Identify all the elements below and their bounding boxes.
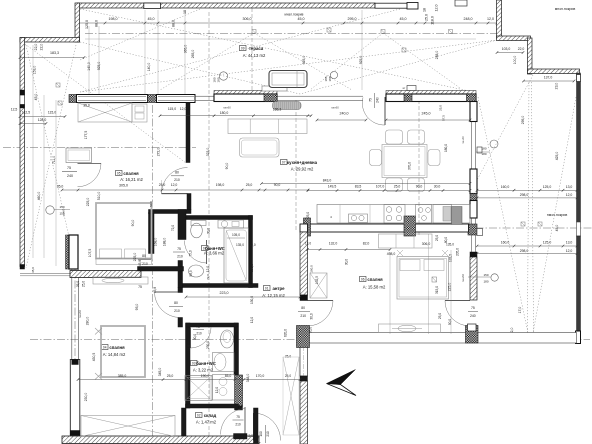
svg-text:180: 180	[483, 280, 488, 284]
window lines gap 1	[195, 95, 214, 97]
column right wall mid2	[470, 201, 477, 219]
bathtub 366	[224, 228, 249, 283]
svg-text:пан60: пан60	[331, 106, 339, 110]
svg-text:306,0: 306,0	[243, 17, 252, 21]
svg-text:385,0: 385,0	[118, 374, 127, 378]
svg-text:75: 75	[177, 247, 181, 251]
window right wall lower	[470, 218, 472, 224]
dining chair bot1	[386, 178, 403, 192]
svg-text:225,0: 225,0	[448, 283, 452, 292]
svg-text:75: 75	[369, 98, 373, 102]
wall below band hatch	[300, 343, 308, 346]
svg-text:160,0: 160,0	[501, 241, 510, 245]
coffee table living	[240, 138, 280, 157]
svg-text:75: 75	[138, 285, 142, 289]
svg-text:298,0: 298,0	[520, 193, 529, 197]
wall corridor hatch lower	[300, 381, 308, 444]
door bath366 leaf	[206, 240, 208, 264]
svg-text:365,0: 365,0	[184, 45, 188, 54]
svg-text:210: 210	[266, 431, 270, 437]
svg-text:230,0: 230,0	[84, 393, 88, 402]
dim line left v2	[43, 95, 45, 258]
dim chain right low2	[477, 253, 577, 255]
washer 322	[213, 375, 235, 401]
door bed15 arc	[308, 301, 334, 327]
roof diagonal terrace top 5	[80, 40, 497, 92]
svg-text:180: 180	[481, 152, 486, 156]
bath366 bottom wall	[182, 284, 259, 288]
svg-text:25,0: 25,0	[438, 313, 442, 319]
ext line v7	[496, 26, 498, 40]
axis line bedroom14	[151, 105, 153, 441]
roof diagonal terrace top 6	[80, 9, 200, 60]
toilet 322	[221, 330, 234, 348]
svg-text:35,0: 35,0	[309, 327, 313, 333]
hatch col kitchen bottom left	[304, 218, 311, 236]
svg-text:137,0: 137,0	[544, 76, 553, 80]
wall left cap	[20, 265, 25, 270]
axis line left terrace	[3, 147, 196, 149]
wc322 right wall	[234, 323, 239, 375]
cabinet bedroom16 wall	[66, 148, 92, 163]
svg-text:22,0: 22,0	[518, 47, 525, 51]
svg-text:132,5: 132,5	[449, 254, 453, 262]
axis dashed vertical x209	[208, 12, 210, 442]
svg-text:345,0: 345,0	[158, 368, 162, 377]
wall piece below sklad door	[234, 434, 248, 440]
wall left	[20, 38, 25, 267]
closet bedroom15	[379, 234, 433, 248]
svg-text:75: 75	[236, 415, 240, 419]
dim line b15	[308, 249, 391, 251]
wall right hatch	[470, 257, 477, 300]
terrace bench	[262, 86, 287, 91]
door bedroom16 left arc	[78, 163, 102, 187]
terrace band bottom	[309, 333, 577, 344]
svg-text:132,0: 132,0	[329, 242, 338, 246]
window left wall cap1	[20, 90, 25, 95]
svg-text:50,0: 50,0	[149, 201, 153, 207]
hatch band left-mid	[70, 271, 141, 278]
ext line v4	[157, 10, 159, 94]
svg-text:35,0: 35,0	[83, 104, 90, 108]
ext line v1	[88, 26, 90, 94]
label terasa	[240, 46, 247, 51]
ext line bed16 1	[161, 180, 163, 194]
svg-text:17,0: 17,0	[518, 307, 522, 314]
dim line left v3	[55, 100, 57, 266]
door bedroom16 left leaf	[78, 162, 102, 164]
label kitchen	[281, 160, 288, 165]
svg-text:125,0: 125,0	[85, 20, 89, 29]
bed bedroom15	[397, 257, 449, 300]
svg-text:25,0: 25,0	[285, 355, 291, 359]
column end top parapet	[407, 3, 418, 10]
svg-text:72,0: 72,0	[206, 274, 210, 280]
ext line b15 b	[428, 234, 430, 334]
svg-text:183,3: 183,3	[50, 51, 59, 55]
ext line v2	[98, 26, 100, 94]
svg-text:88,0: 88,0	[95, 20, 99, 27]
svg-text:430,5: 430,5	[92, 353, 96, 362]
svg-text:295,0: 295,0	[521, 116, 525, 125]
svg-text:265,0: 265,0	[191, 50, 195, 59]
svg-text:A: 3,22 m2: A: 3,22 m2	[193, 368, 214, 373]
axis line kitchen band	[300, 227, 592, 229]
svg-text:спалня: спалня	[123, 171, 139, 176]
svg-text:пан60: пан60	[223, 106, 231, 110]
shower 322	[185, 376, 212, 401]
svg-text:23,0: 23,0	[555, 83, 559, 90]
cabinet gray below band	[273, 102, 302, 110]
label antre	[264, 286, 271, 291]
svg-text:баня+WC: баня+WC	[196, 361, 216, 366]
window left wall cap2	[20, 105, 25, 109]
svg-text:180: 180	[328, 76, 332, 81]
wall right cap black	[470, 252, 477, 257]
window right wall lower2	[470, 235, 472, 252]
toilet 366	[191, 223, 203, 238]
svg-text:нмзл.покрив: нмзл.покрив	[547, 213, 568, 217]
svg-text:225,0: 225,0	[86, 198, 90, 207]
svg-text:25,0: 25,0	[439, 105, 443, 111]
sofa living	[228, 119, 307, 134]
svg-text:35,0: 35,0	[76, 281, 80, 287]
sink 322	[213, 353, 235, 372]
svg-text:A: 1,47 m2: A: 1,47 m2	[196, 420, 217, 425]
svg-text:306,0: 306,0	[422, 242, 431, 246]
label bath366	[202, 246, 209, 251]
column right wall mid	[470, 169, 477, 194]
door bed15 leaf	[308, 300, 334, 302]
wall band living top	[214, 94, 277, 102]
antre step wall	[138, 267, 184, 272]
svg-text:100,0: 100,0	[513, 56, 517, 65]
axis line bottom band	[30, 339, 590, 341]
dining chair top1	[386, 130, 403, 144]
svg-text:A: 15,58 m2: A: 15,58 m2	[363, 285, 386, 290]
svg-text:510,0: 510,0	[97, 192, 101, 201]
svg-text:160,0: 160,0	[310, 265, 314, 273]
label bedroom14	[102, 345, 109, 350]
roof diagonal terrace top 9	[310, 33, 383, 90]
corner mark b14 b	[95, 373, 102, 380]
roof diagonal terrace top 3	[300, 40, 497, 94]
svg-text:30,0: 30,0	[207, 228, 211, 234]
svg-text:30,0: 30,0	[193, 334, 197, 340]
svg-text:190,0: 190,0	[250, 264, 254, 272]
svg-text:295,0: 295,0	[348, 17, 357, 21]
svg-text:925,0: 925,0	[97, 62, 101, 71]
svg-text:72,0: 72,0	[187, 345, 191, 351]
terrace band hatch right	[466, 326, 479, 344]
wc322 top wall	[186, 323, 238, 327]
window left wall	[20, 95, 25, 105]
svg-text:пан60: пан60	[461, 274, 465, 283]
door right terrace leaf	[445, 300, 470, 302]
wall band kitchen top	[386, 94, 476, 102]
svg-text:248,0: 248,0	[435, 51, 439, 60]
svg-text:45,8: 45,8	[153, 287, 157, 293]
svg-text:45,0: 45,0	[148, 17, 155, 21]
svg-text:205,0: 205,0	[456, 248, 460, 256]
kt box right wall 2	[477, 147, 482, 153]
dim chain right low	[477, 245, 577, 247]
axis mark t1	[327, 28, 331, 32]
door bedroom16 leaf	[162, 193, 188, 195]
drain circle right2	[491, 274, 498, 281]
axis mark t4	[381, 30, 385, 34]
window band lower-left lower	[70, 360, 80, 436]
svg-text:80: 80	[301, 306, 305, 310]
corner mark b15 2	[442, 250, 448, 256]
svg-text:188,0: 188,0	[163, 238, 167, 247]
svg-text:125,0: 125,0	[543, 185, 552, 189]
svg-text:272,0: 272,0	[157, 148, 161, 157]
axis dashed vertical x296	[295, 100, 297, 232]
svg-text:225,0: 225,0	[133, 253, 137, 262]
roof diagonal right terrace 5	[477, 75, 533, 180]
terrace door leaf	[384, 97, 386, 125]
svg-text:210: 210	[177, 255, 183, 259]
wall top-right vertical 1	[497, 0, 502, 38]
closet corridor	[283, 357, 299, 435]
sink 366	[189, 265, 204, 277]
svg-text:35,0: 35,0	[57, 185, 64, 189]
svg-text:01: 01	[265, 287, 269, 291]
svg-text:210: 210	[300, 314, 306, 318]
svg-text:склад: склад	[204, 413, 217, 418]
svg-text:A: 29,92 m2: A: 29,92 m2	[291, 167, 314, 172]
svg-text:298,0: 298,0	[520, 249, 529, 253]
svg-text:06: 06	[361, 278, 365, 282]
svg-text:240,0: 240,0	[340, 112, 349, 116]
hatch strip living band	[214, 91, 277, 95]
roof diagonal right terrace 3	[528, 82, 530, 333]
door wc322 arc	[191, 328, 212, 349]
svg-text:115,0: 115,0	[48, 111, 56, 115]
svg-text:149,5: 149,5	[328, 185, 337, 189]
window band lower-left upper	[71, 269, 73, 360]
dim line bot	[186, 379, 300, 381]
svg-text:A: 3,66 m2: A: 3,66 m2	[204, 251, 225, 256]
column check right wall 2	[468, 224, 477, 235]
svg-text:25,0: 25,0	[306, 212, 310, 218]
roof diagonal terrace top 4	[80, 42, 300, 94]
svg-text:A: 14,84 m2: A: 14,84 m2	[103, 352, 126, 357]
wardrobe bedroom16	[78, 103, 132, 122]
wall band bedroom top	[77, 95, 148, 103]
wall right dark lower	[577, 236, 581, 335]
wall top-left leg	[75, 3, 80, 42]
box X bedroom15	[310, 273, 327, 298]
svg-text:210: 210	[235, 423, 241, 427]
wall bar left of bath366	[149, 213, 155, 254]
north arrow	[327, 370, 356, 385]
svg-text:128,0: 128,0	[38, 118, 47, 122]
svg-text:мнзл.покрив: мнзл.покрив	[285, 13, 304, 17]
wall corridor cap	[300, 376, 308, 381]
svg-text:210: 210	[142, 262, 148, 266]
column hatch lower-left	[66, 235, 70, 269]
svg-text:50,0: 50,0	[448, 319, 452, 325]
axis mark right 2	[538, 222, 542, 226]
hatch band bottom	[62, 436, 259, 444]
wall antre-bed15 cap	[300, 295, 308, 301]
svg-text:35,0: 35,0	[31, 267, 35, 273]
axis mark right 1	[521, 222, 525, 226]
svg-text:13,0: 13,0	[566, 185, 573, 189]
dim chain right mid	[477, 189, 577, 191]
wc322 block cap	[235, 406, 243, 410]
roof diagonal terrace top 10	[383, 33, 460, 88]
svg-text:140,0: 140,0	[87, 62, 91, 71]
door sklad2 leaf	[244, 407, 246, 436]
svg-text:170,0: 170,0	[256, 374, 265, 378]
sklad left wall	[182, 408, 187, 436]
corner mark top-right	[455, 0, 467, 6]
svg-text:925,0: 925,0	[359, 56, 363, 65]
axis dashed vertical x252	[251, 8, 253, 95]
dim chain top	[77, 22, 497, 24]
svg-text:75: 75	[67, 166, 71, 170]
axis mark t5	[449, 30, 453, 34]
window band lower-left cap1	[72, 360, 79, 365]
glazing bedroom band	[78, 96, 146, 98]
kt box above kitchen band	[407, 86, 416, 91]
wall bedroom14 right	[178, 288, 183, 293]
column mid band 2	[148, 95, 157, 103]
svg-text:115,0: 115,0	[168, 107, 176, 111]
corner mark b14 t	[95, 328, 102, 335]
svg-text:180,0: 180,0	[444, 144, 448, 152]
svg-text:112,5: 112,5	[22, 111, 30, 115]
bed bedroom16	[96, 203, 152, 259]
kitchen sink unit	[349, 214, 368, 223]
wall right top white cap	[577, 75, 581, 82]
svg-text:13,0: 13,0	[566, 241, 573, 245]
svg-text:80: 80	[142, 254, 146, 258]
bath366 right wall	[249, 216, 253, 288]
svg-text:25,0: 25,0	[246, 183, 253, 187]
svg-text:240: 240	[376, 97, 380, 103]
door bedroom14 arc	[155, 292, 181, 318]
parapet white segment	[375, 3, 408, 8]
drain circle terrace1	[219, 72, 227, 80]
svg-text:72,0: 72,0	[171, 225, 175, 231]
svg-text:315,0: 315,0	[435, 286, 439, 294]
svg-text:132,5: 132,5	[315, 276, 319, 284]
svg-text:107,5: 107,5	[88, 249, 92, 258]
svg-text:90,0: 90,0	[131, 220, 135, 227]
label bedroom15	[360, 277, 367, 282]
svg-text:425,0: 425,0	[555, 152, 559, 161]
svg-text:240: 240	[470, 314, 476, 318]
svg-text:45,0: 45,0	[298, 17, 305, 21]
svg-text:135,0: 135,0	[236, 243, 244, 247]
svg-text:280,0: 280,0	[86, 317, 90, 326]
drain circle terrace2	[330, 71, 337, 78]
wc322 bottom wall	[186, 404, 239, 408]
svg-text:180,0: 180,0	[220, 111, 229, 115]
svg-text:107,0: 107,0	[376, 185, 385, 189]
svg-text:75: 75	[471, 306, 475, 310]
column kitchen band 1	[404, 94, 412, 102]
svg-text:245,0: 245,0	[422, 112, 431, 116]
terrace band hatch left	[297, 326, 310, 348]
door jamb box right	[468, 324, 477, 331]
ext line v5	[184, 10, 186, 94]
svg-text:мнзл.покрив: мнзл.покрив	[555, 7, 576, 11]
wc322 left wall	[186, 323, 191, 408]
terrace door arc	[362, 98, 385, 126]
axis line left window band	[74, 240, 76, 433]
svg-text:13,0: 13,0	[305, 242, 311, 246]
svg-text:150: 150	[59, 205, 64, 209]
svg-text:82,0: 82,0	[363, 242, 370, 246]
svg-text:90,0: 90,0	[225, 163, 229, 170]
door right terrace arc	[445, 301, 470, 327]
svg-text:240: 240	[67, 174, 73, 178]
axis dashed vertical x419	[418, 100, 420, 235]
svg-text:75,0: 75,0	[189, 250, 193, 256]
svg-text:тераса: тераса	[249, 46, 264, 51]
kt box right wall	[477, 229, 483, 236]
axis mark tl1	[56, 83, 60, 87]
svg-text:83,5: 83,5	[355, 185, 362, 189]
dim line b14	[78, 379, 186, 381]
svg-text:348,0: 348,0	[246, 374, 250, 383]
ext line v6	[361, 10, 363, 90]
svg-text:пан60: пан60	[78, 310, 82, 319]
svg-text:210: 210	[174, 309, 180, 313]
svg-text:25,0: 25,0	[167, 374, 174, 378]
roof diagonal right terrace 1	[478, 97, 528, 333]
svg-text:125,0: 125,0	[543, 241, 552, 245]
svg-text:12,0: 12,0	[206, 266, 210, 272]
svg-text:25,0: 25,0	[435, 235, 439, 241]
svg-text:198,0: 198,0	[109, 17, 118, 21]
svg-text:30,0: 30,0	[434, 185, 441, 189]
svg-text:210: 210	[196, 332, 202, 336]
washbasin unit 366	[218, 220, 244, 228]
dresser bedroom15	[379, 324, 441, 333]
axis mark t3	[252, 30, 256, 34]
svg-text:80: 80	[174, 301, 178, 305]
svg-text:85,0: 85,0	[225, 374, 232, 378]
svg-text:22,0: 22,0	[34, 44, 38, 51]
svg-text:22,0: 22,0	[40, 44, 44, 51]
wall top parapet	[77, 3, 375, 8]
svg-text:12,0: 12,0	[435, 5, 439, 12]
svg-text:12,5: 12,5	[11, 108, 18, 112]
roof diagonal bedroom TL	[25, 44, 186, 163]
svg-text:180: 180	[217, 77, 221, 82]
sklad door leaf	[253, 413, 255, 441]
window band lower-left cap2	[70, 431, 80, 436]
svg-text:75: 75	[196, 325, 200, 329]
svg-text:165,3: 165,3	[273, 108, 282, 112]
wc322 hatch block	[235, 375, 243, 406]
svg-text:168,0: 168,0	[154, 238, 158, 247]
sklad door arc	[254, 413, 281, 441]
ext line v3	[144, 10, 146, 94]
dim chain right mid2	[477, 197, 577, 199]
dining chair left	[370, 150, 382, 166]
wall bar below bed16 door	[187, 194, 191, 210]
svg-text:323,0: 323,0	[206, 148, 210, 157]
svg-text:25,0: 25,0	[159, 183, 166, 187]
